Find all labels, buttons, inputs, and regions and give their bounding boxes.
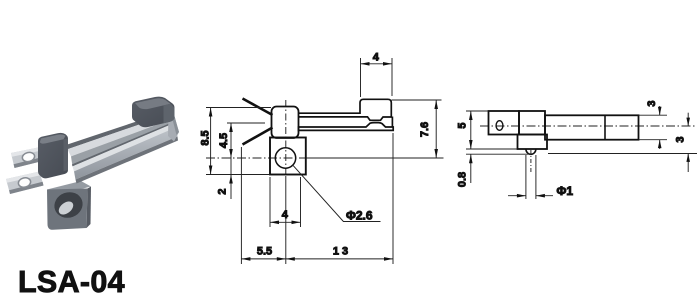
centerline vertical extension to bottom dims	[285, 176, 287, 264]
dim 5 line and arrows	[470, 111, 472, 149]
dim phi1 line and arrows	[508, 195, 526, 197]
svg-text:8.5: 8.5	[200, 130, 212, 145]
svg-text:4.5: 4.5	[218, 133, 230, 148]
dim 2 line and outside arrow	[230, 158, 232, 175]
dim 4 (bottom) ext lines	[269, 177, 271, 227]
photo: slider knob top face	[40, 134, 66, 143]
photo: bar channel interior	[71, 118, 176, 166]
dim 4 (top) line and arrows	[361, 63, 393, 65]
left cap block	[489, 111, 520, 135]
actuator upper strip with hump and notch	[299, 99, 392, 120]
dim 8.5 ext lines	[206, 107, 271, 109]
svg-text:4: 4	[282, 209, 289, 221]
terminal pin lower	[243, 128, 273, 145]
flange under block	[518, 135, 548, 150]
svg-text:Φ1: Φ1	[557, 184, 574, 198]
photo: end knob right shade	[164, 104, 175, 124]
photo: bar channel inner shadow	[72, 121, 176, 166]
svg-text:1 3: 1 3	[333, 246, 348, 258]
dim 5.5 line and arrows	[241, 258, 285, 260]
hole (ellipse) in cap	[496, 121, 503, 131]
dim 3 (center to pin) stems and outside arrows	[687, 113, 689, 126]
body block	[270, 138, 306, 175]
photo: bottom block top face	[47, 181, 91, 195]
photo: bar back dark edge	[64, 110, 174, 149]
dim 0.8 ext line (pin bottom)	[466, 153, 531, 155]
dim 3 (bar height) ext lines	[639, 114, 668, 116]
dim 4.5 ext line	[227, 122, 265, 124]
dim 7.6 ext line top	[392, 99, 442, 101]
dim 4 (bottom) line and arrows	[270, 221, 301, 223]
actuator lower strip with detent bump	[299, 123, 394, 131]
photo: bar back wall bright top	[68, 113, 176, 157]
photo: bar bottom shadow edge	[76, 137, 179, 184]
dim 7.6 line and arrows	[435, 100, 437, 158]
centerline horizontal	[480, 125, 697, 127]
photo: lower tab hole	[17, 177, 31, 189]
pin edge ext lines	[525, 155, 527, 199]
terminal pin upper	[243, 99, 273, 116]
svg-text:Φ2.6: Φ2.6	[346, 209, 373, 223]
centerline vertical (knob/body axis)	[285, 100, 287, 176]
svg-text:5.5: 5.5	[257, 246, 272, 258]
dim 4.5 line and arrows	[230, 123, 232, 158]
center block	[519, 111, 545, 135]
hole phi2.6	[275, 148, 295, 168]
dim 5.5 / 13 ext lines	[240, 147, 242, 264]
dim 8.5 line and arrows	[210, 108, 212, 175]
photo: bottom block front face	[47, 189, 88, 230]
pin centerline	[530, 150, 532, 172]
pin dome	[526, 149, 536, 154]
leader phi2.6	[293, 165, 381, 222]
svg-text:3: 3	[646, 100, 658, 106]
photo: end knob top face	[135, 98, 171, 109]
photo: bottom block hole shine	[56, 199, 75, 217]
photo: bar front face	[74, 127, 178, 180]
dim 13 line and arrows	[286, 258, 393, 260]
bar end divider	[604, 115, 606, 139]
photo: end knob (dark)	[132, 97, 175, 128]
photo: bottom block hole	[51, 188, 86, 221]
dim 0.8 stem and outside arrow	[470, 154, 472, 183]
dim 5 ext lines	[466, 110, 488, 112]
photo: lower mounting tab	[6, 172, 44, 195]
photo: upper tab hole	[21, 151, 35, 163]
svg-text:2: 2	[217, 188, 229, 194]
svg-text:0.8: 0.8	[457, 172, 469, 187]
photo: bar channel end face	[168, 111, 179, 142]
actuator bar	[545, 115, 639, 139]
centerline horizontal (hole axis)	[206, 157, 302, 159]
photo: bar front wall bright edge	[73, 123, 177, 172]
photo: slider knob right face	[64, 139, 69, 172]
dim 4 (top) ext lines	[360, 58, 362, 97]
svg-text:LSA-04: LSA-04	[18, 265, 125, 299]
photo: bottom block right face	[87, 187, 92, 229]
svg-text:7.6: 7.6	[419, 122, 431, 137]
photo: slider knob	[38, 133, 68, 179]
svg-text:3: 3	[675, 136, 687, 142]
slider knob (rounded)	[272, 107, 299, 139]
photo: upper mounting tab	[11, 147, 47, 169]
svg-text:5: 5	[457, 122, 469, 128]
svg-text:4: 4	[373, 52, 380, 64]
dim 3 (center to pin) ext line	[548, 153, 697, 155]
dim 3 (bar height) stems and outside arrows	[659, 106, 661, 115]
actuator right end connector	[391, 117, 393, 128]
